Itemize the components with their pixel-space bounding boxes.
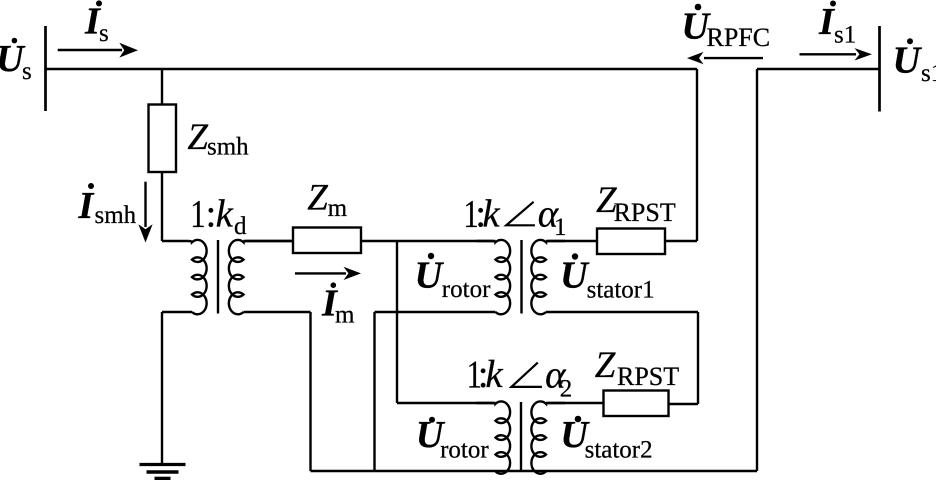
svg-text:Z: Z [307,178,328,219]
svg-text:s: s [22,58,32,85]
svg-text:stator2: stator2 [585,437,653,464]
svg-text:smh: smh [95,202,137,229]
svg-text:1: 1 [190,193,205,236]
svg-text:RPST: RPST [617,362,679,391]
svg-text:s1: s1 [834,22,856,49]
svg-text:I: I [77,185,95,227]
svg-text:Z: Z [595,345,616,386]
svg-text:k: k [482,193,500,236]
svg-text:RPFC: RPFC [707,23,771,52]
svg-text:s: s [99,20,109,47]
svg-text:1: 1 [554,214,567,241]
svg-text:smh: smh [207,134,249,161]
svg-text:d: d [234,213,247,240]
svg-text:2: 2 [560,376,573,403]
svg-text:U: U [560,255,590,297]
svg-text:U: U [893,40,923,82]
svg-text:k: k [485,353,503,396]
svg-text:s1: s1 [921,60,936,87]
svg-text:RPST: RPST [614,198,676,227]
svg-text:rotor: rotor [442,276,491,303]
svg-text:k: k [216,193,234,236]
svg-text:Z: Z [187,117,208,158]
svg-text:m: m [328,195,348,222]
svg-text:m: m [335,301,355,328]
svg-text:stator1: stator1 [587,277,655,304]
svg-text:rotor: rotor [440,437,489,464]
svg-text:U: U [415,255,445,297]
